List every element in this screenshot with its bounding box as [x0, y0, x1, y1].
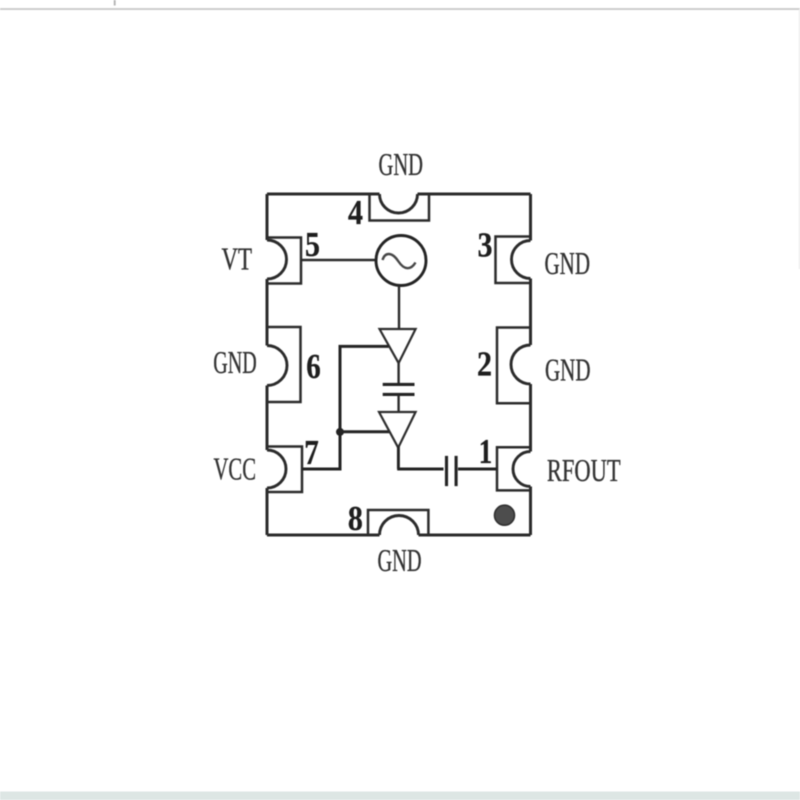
- pin 2 notch: [511, 345, 531, 384]
- pin 2 pad box: [497, 328, 530, 404]
- svg-text:4: 4: [348, 194, 363, 232]
- svg-text:GND: GND: [213, 344, 256, 380]
- wire C2 to pin 1: [458, 468, 497, 471]
- svg-text:1: 1: [479, 433, 493, 471]
- wire D1 to capacitor C1: [397, 363, 399, 383]
- svg-text:GND: GND: [545, 245, 591, 281]
- wire pin5 to oscillator: [301, 259, 376, 261]
- pin 3 notch: [512, 241, 531, 279]
- pin 4 pad box: [370, 195, 430, 221]
- pin 6 pad box: [268, 327, 301, 402]
- pin 6 notch: [267, 346, 287, 386]
- capacitor C2 plates: [447, 456, 457, 486]
- pin 4 notch: [380, 194, 418, 213]
- pin 1 index dot: [495, 505, 515, 525]
- svg-text:3: 3: [478, 227, 493, 265]
- svg-text:8: 8: [348, 500, 363, 538]
- pin 7 pad box: [268, 447, 303, 493]
- svg-text:7: 7: [304, 434, 319, 472]
- wire junction to amplifier: [340, 430, 389, 433]
- svg-text:6: 6: [306, 348, 321, 386]
- svg-text:GND: GND: [378, 542, 422, 578]
- pin 5 notch: [267, 240, 287, 279]
- svg-text:VCC: VCC: [214, 451, 257, 487]
- junction node dot: [336, 428, 344, 436]
- svg-text:5: 5: [305, 226, 320, 264]
- wire feedback loop from pin 7: [302, 346, 389, 469]
- oscillator U1 sine wave: [383, 254, 416, 268]
- package outline: [267, 194, 531, 535]
- pin 1 notch: [513, 452, 531, 487]
- capacitor C1 plates: [383, 384, 415, 394]
- svg-text:GND: GND: [545, 352, 591, 388]
- svg-text:GND: GND: [379, 146, 424, 182]
- pin 5 pad box: [268, 238, 302, 284]
- wire oscillator to varactor D1: [398, 286, 400, 329]
- pin 7 notch: [267, 450, 286, 488]
- pin 8 pad box: [368, 510, 428, 535]
- wire C1 to amplifier: [397, 396, 399, 412]
- svg-text:2: 2: [477, 346, 492, 384]
- pin 8 notch: [380, 516, 419, 536]
- varactor diode D1 triangle: [380, 329, 416, 363]
- pin 1 pad box: [497, 447, 530, 490]
- oscillator U1 circle: [376, 236, 426, 286]
- amplifier triangle: [379, 412, 416, 448]
- pin 3 pad box: [496, 237, 531, 284]
- wire amplifier to capacitor C2: [397, 447, 443, 470]
- svg-text:RFOUT: RFOUT: [547, 452, 621, 488]
- svg-text:VT: VT: [222, 241, 253, 277]
